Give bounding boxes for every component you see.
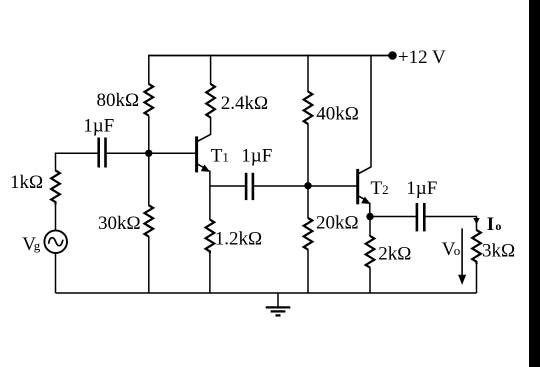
transistor T2 xyxy=(358,167,372,205)
svg-text:1µF: 1µF xyxy=(241,146,272,167)
label Vg xyxy=(22,234,41,255)
resistor R1 80k xyxy=(145,84,154,116)
capacitor C1 1uF input xyxy=(99,138,106,168)
arrow Vo polarity xyxy=(458,228,466,285)
resistor R8 3k load xyxy=(472,230,481,264)
ground xyxy=(266,293,291,315)
wire 2k column xyxy=(369,217,371,237)
wire T1 emitter column xyxy=(209,171,211,221)
resistor R7 20k xyxy=(304,218,313,250)
svg-text:T1: T1 xyxy=(211,146,229,167)
wire T2 emitter to node xyxy=(369,203,371,217)
node T2 emitter junction xyxy=(366,213,373,220)
wire emitter node to C3 xyxy=(370,216,417,218)
svg-text:3kΩ: 3kΩ xyxy=(482,241,515,262)
label 1uF input xyxy=(83,116,114,137)
node base bias junction xyxy=(145,150,152,157)
wire source to ground rail xyxy=(55,253,57,293)
decorative right black bar xyxy=(529,0,540,367)
label 2.4kΩ xyxy=(221,93,268,114)
wire 2k to ground rail xyxy=(369,267,371,293)
wire source column top xyxy=(55,153,57,171)
wire emitter to C2 xyxy=(210,185,246,187)
capacitor C3 1uF output xyxy=(417,203,424,231)
label 30kΩ xyxy=(98,213,141,234)
svg-text:20kΩ: 20kΩ xyxy=(316,213,359,234)
svg-text:+12 V: +12 V xyxy=(398,47,446,68)
svg-text:T2: T2 xyxy=(371,178,389,199)
wire 40k column top xyxy=(307,55,309,92)
wire bottom ground rail xyxy=(56,292,477,294)
svg-text:2.4kΩ: 2.4kΩ xyxy=(221,93,268,114)
wire 1k to source xyxy=(55,204,57,231)
label T2 xyxy=(371,178,389,199)
label 2kΩ xyxy=(378,244,411,265)
wire 1.2k to ground rail xyxy=(209,253,211,293)
node +12V supply dot xyxy=(388,51,397,60)
wire T1 collector column xyxy=(210,117,212,135)
label 1uF output xyxy=(406,178,437,199)
wire T2 collector to top rail xyxy=(370,56,372,168)
label T1 xyxy=(211,146,229,167)
svg-text:1µF: 1µF xyxy=(406,178,437,199)
svg-text:1µF: 1µF xyxy=(83,116,114,137)
label 1uF interstage xyxy=(241,146,272,167)
label 3kΩ xyxy=(482,241,515,262)
resistor R9 2k xyxy=(366,236,375,268)
svg-text:1.2kΩ: 1.2kΩ xyxy=(215,228,262,249)
wire 2.4k to top rail xyxy=(210,55,212,85)
wire 40k to mid node xyxy=(307,124,309,219)
wire base node to T1 base xyxy=(149,152,196,154)
svg-text:2kΩ: 2kΩ xyxy=(378,244,411,265)
wire C2 to mid node xyxy=(254,185,308,187)
label Vo xyxy=(442,239,461,260)
svg-text:1kΩ: 1kΩ xyxy=(10,172,43,193)
wire top supply rail xyxy=(149,55,393,57)
label 80kΩ xyxy=(97,90,140,111)
resistor R4 2.4k xyxy=(206,84,215,118)
wire left bias column lower xyxy=(148,236,150,293)
resistor R3 1k xyxy=(51,171,60,205)
label 40kΩ xyxy=(316,104,359,125)
wire C3 to output corner xyxy=(425,216,476,218)
label Io xyxy=(487,214,502,235)
resistor R5 1.2k xyxy=(206,220,215,254)
label 1.2kΩ xyxy=(215,228,262,249)
transistor T1 xyxy=(197,134,211,172)
svg-text:Io: Io xyxy=(487,214,502,235)
svg-text:Vo: Vo xyxy=(442,239,461,260)
wire output corner down with Io arrow xyxy=(473,216,479,231)
wire input cap to base node xyxy=(107,152,149,154)
resistor R2 30k xyxy=(145,205,154,236)
wire 20k to ground rail xyxy=(307,249,309,293)
label 20kΩ xyxy=(316,213,359,234)
svg-text:80kΩ: 80kΩ xyxy=(97,90,140,111)
wire input left segment xyxy=(55,152,99,154)
label 1kΩ xyxy=(10,172,43,193)
svg-text:40kΩ: 40kΩ xyxy=(316,104,359,125)
wire mid node to T2 base xyxy=(308,185,357,187)
wire left bias column upper xyxy=(148,55,150,85)
capacitor C2 1uF interstage xyxy=(246,173,253,200)
wire left bias column middle xyxy=(148,116,150,206)
node T2 base junction xyxy=(304,182,311,189)
wire 3k to ground rail xyxy=(476,264,478,293)
svg-text:30kΩ: 30kΩ xyxy=(98,213,141,234)
source Vg sine generator xyxy=(44,230,67,253)
label +12 V xyxy=(398,47,446,68)
svg-text:Vg: Vg xyxy=(22,234,41,255)
resistor R6 40k xyxy=(304,92,313,124)
